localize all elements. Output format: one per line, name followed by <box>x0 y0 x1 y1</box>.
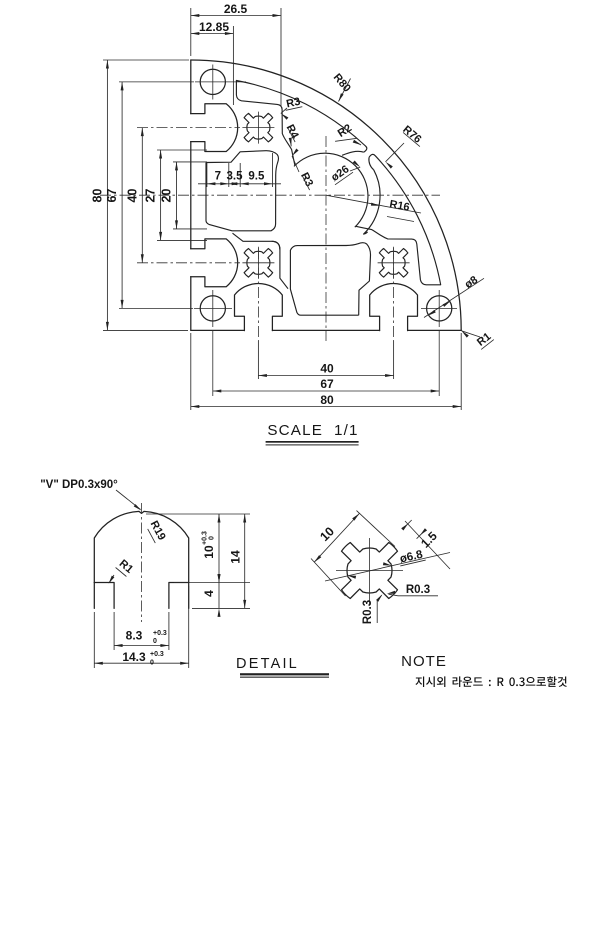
svg-text:14.3: 14.3 <box>122 650 146 664</box>
svg-text:R80: R80 <box>331 71 353 94</box>
svg-text:R19: R19 <box>148 519 168 542</box>
svg-text:R16: R16 <box>389 198 411 213</box>
svg-text:26.5: 26.5 <box>224 2 248 16</box>
svg-text:+0.3: +0.3 <box>153 630 167 637</box>
svg-text:12.85: 12.85 <box>199 20 229 34</box>
svg-text:40: 40 <box>125 189 139 203</box>
svg-text:4: 4 <box>202 590 216 597</box>
svg-text:ø8: ø8 <box>463 274 480 291</box>
svg-text:3.5: 3.5 <box>227 171 244 183</box>
svg-text:80: 80 <box>320 393 334 407</box>
svg-text:0: 0 <box>153 638 157 645</box>
svg-text:NOTE: NOTE <box>401 653 447 670</box>
svg-text:R2: R2 <box>336 122 354 140</box>
svg-text:0: 0 <box>150 660 154 667</box>
svg-text:20: 20 <box>160 189 174 203</box>
svg-text:+0.3: +0.3 <box>150 651 164 658</box>
svg-text:67: 67 <box>320 377 334 391</box>
svg-text:SCALE 1/1: SCALE 1/1 <box>267 422 358 439</box>
svg-text:8.3: 8.3 <box>126 629 143 643</box>
svg-text:R4: R4 <box>284 123 301 142</box>
svg-text:R1: R1 <box>475 331 493 349</box>
svg-text:0: 0 <box>209 536 216 540</box>
svg-text:R0.3: R0.3 <box>362 600 374 624</box>
svg-text:R3: R3 <box>285 96 301 111</box>
svg-text:27: 27 <box>144 189 158 203</box>
svg-text:R1: R1 <box>117 558 135 576</box>
svg-text:9.5: 9.5 <box>248 171 265 183</box>
svg-text:R0.3: R0.3 <box>406 584 430 596</box>
svg-text:R76: R76 <box>400 124 423 146</box>
svg-text:10: 10 <box>202 545 216 559</box>
svg-text:67: 67 <box>105 189 119 203</box>
svg-text:7: 7 <box>215 171 221 183</box>
svg-text:R3: R3 <box>298 171 315 189</box>
svg-text:14: 14 <box>229 550 243 564</box>
svg-text:"V" DP0.3x90°: "V" DP0.3x90° <box>40 479 118 491</box>
svg-text:40: 40 <box>320 362 334 376</box>
svg-text:80: 80 <box>90 189 104 203</box>
svg-text:+0.3: +0.3 <box>202 531 209 545</box>
svg-text:DETAIL: DETAIL <box>236 656 299 672</box>
svg-text:1.5: 1.5 <box>418 529 440 551</box>
